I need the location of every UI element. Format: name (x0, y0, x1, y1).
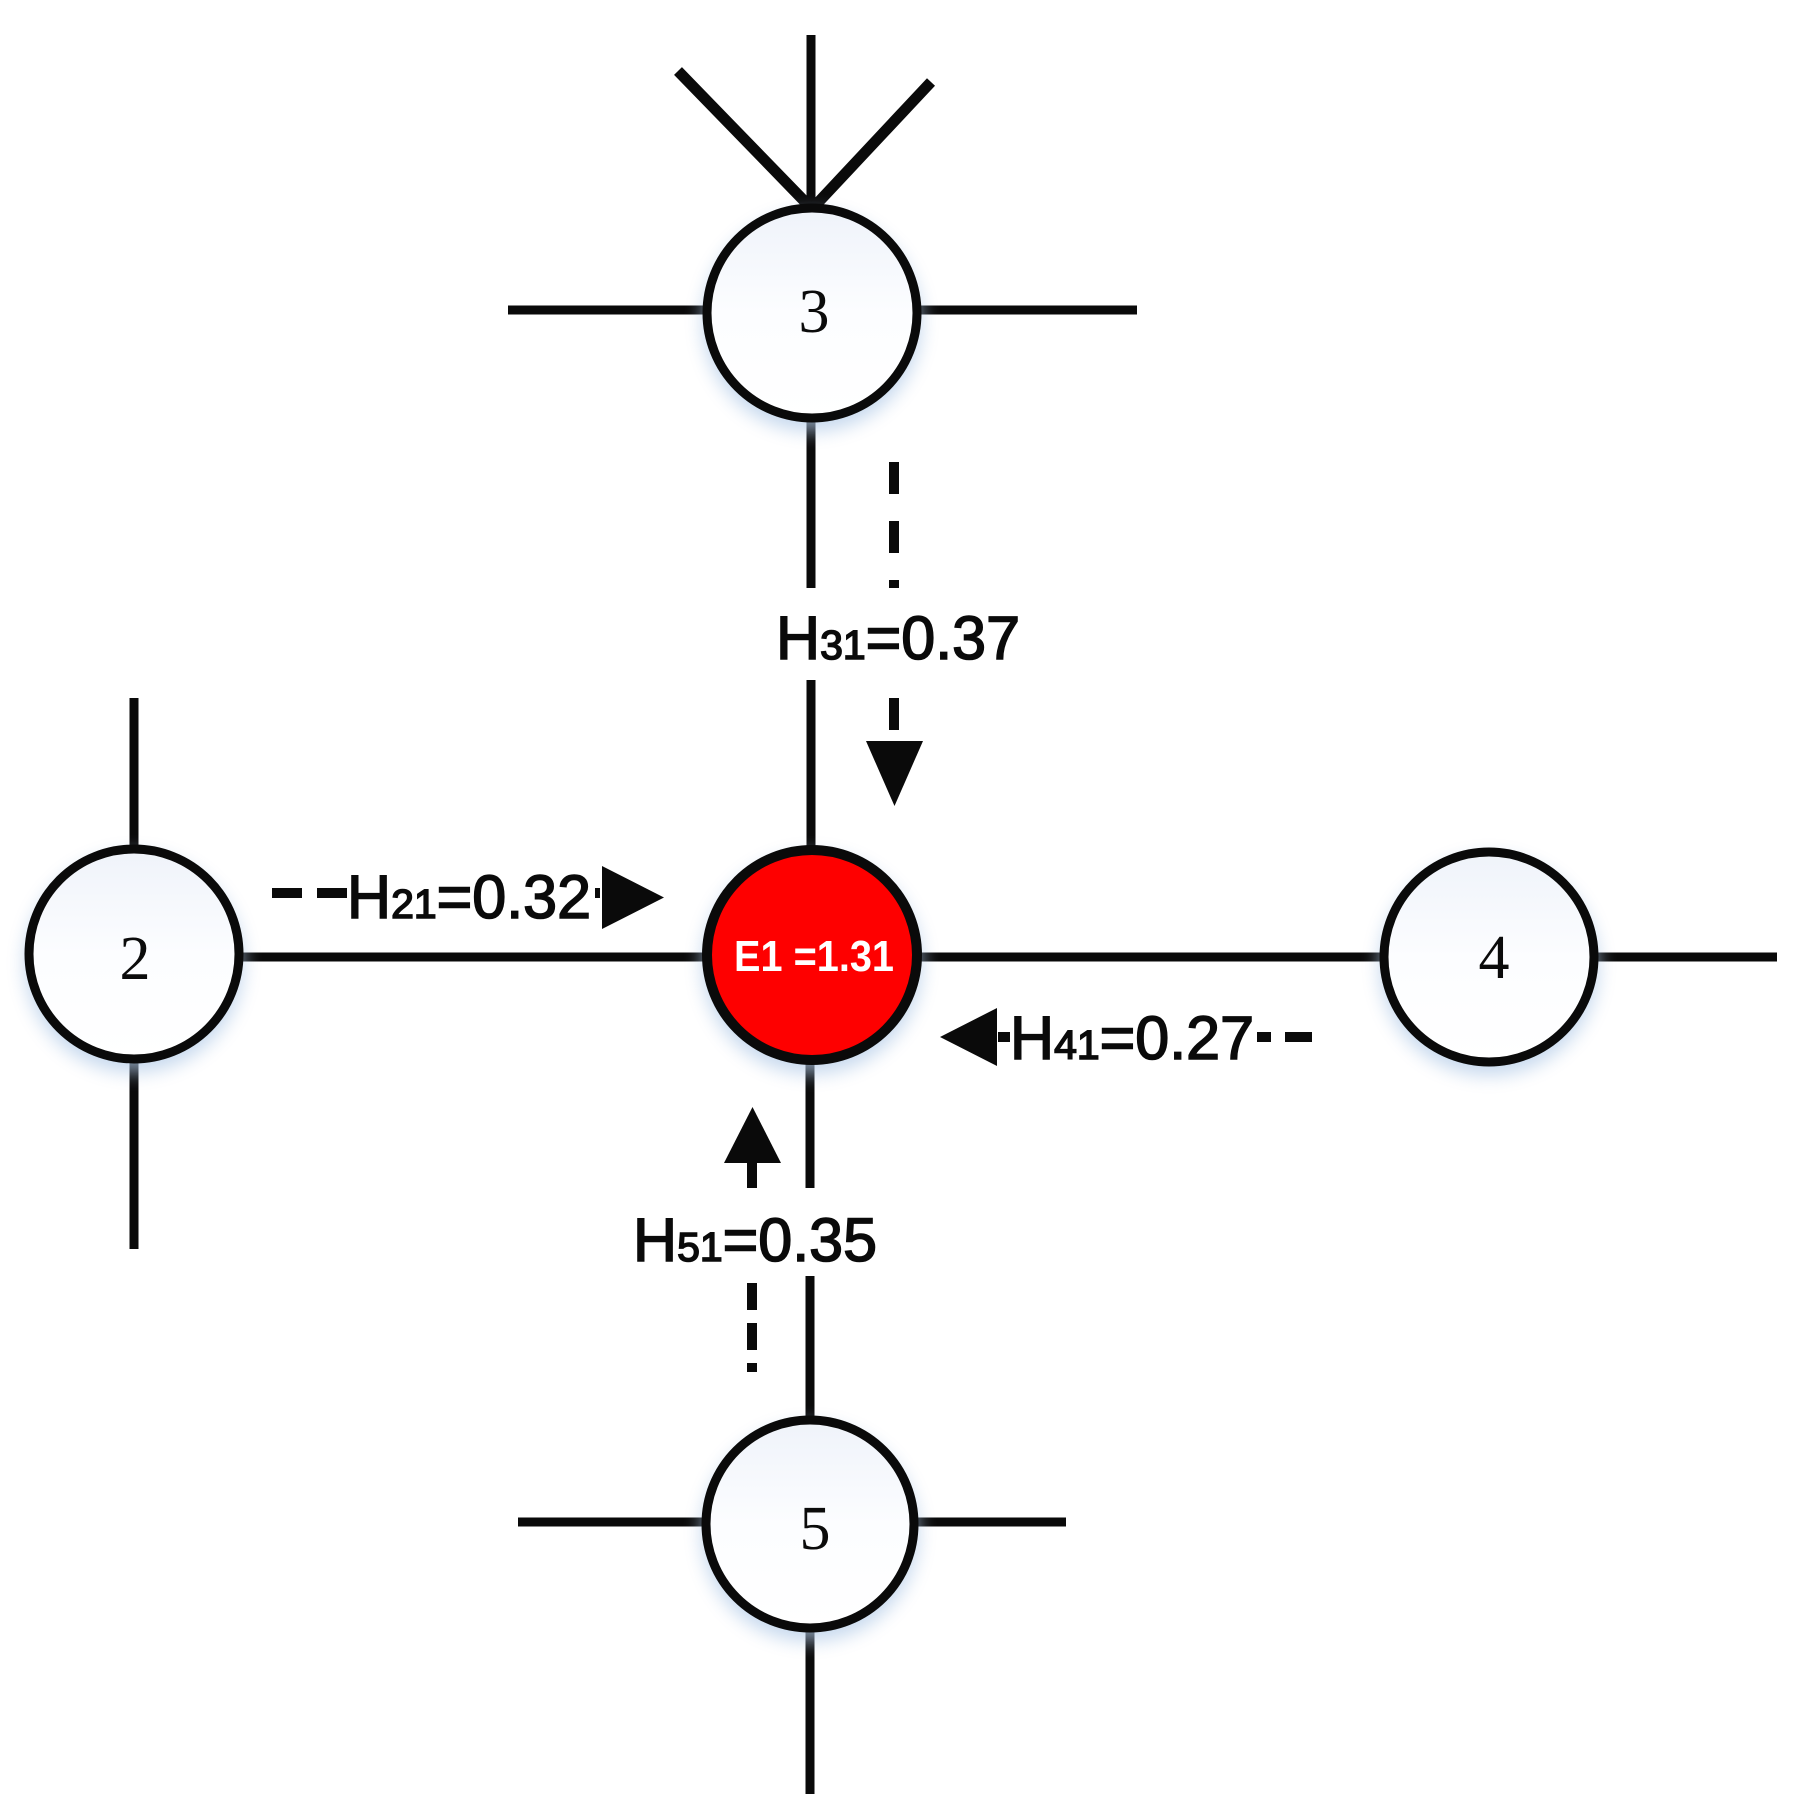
label H41=0.27 background (1010, 996, 1257, 1081)
wire: feeder into bus 3 right diagonal (812, 82, 931, 209)
arrowhead H51 (up) (724, 1107, 781, 1163)
svg-text:4: 4 (1479, 924, 1510, 992)
wire: line 5-1 (bus 5 to bus 1) (806, 1063, 815, 1418)
wire: line 1-4 (bus 1 to bus 4) (920, 953, 1382, 962)
svg-text:H21=0.32: H21=0.32 (347, 863, 591, 931)
node/bus circles (29, 208, 1594, 1628)
svg-text:H51=0.35: H51=0.35 (633, 1206, 877, 1274)
dashed arrow H51 line (747, 1163, 757, 1372)
dashed arrow H41 line (998, 1032, 1326, 1042)
wire: bus 2 bottom branch (130, 1061, 139, 1249)
svg-text:H41=0.27: H41=0.27 (1010, 1004, 1254, 1072)
dashed arrow H31 line (889, 462, 899, 741)
arrowhead H31 (down) (866, 741, 923, 806)
wire: feeder into bus 3 left diagonal (678, 71, 812, 209)
dashed arrow H21 line (272, 888, 600, 898)
wire: line 3-1 (bus 3 to bus 1) (807, 419, 816, 847)
wire: line 2-1 (bus 2 to bus 1) (242, 953, 704, 962)
svg-text:H31=0.37: H31=0.37 (776, 604, 1020, 672)
label H21=0.32 background (348, 852, 595, 940)
node bus 2 (29, 849, 239, 1059)
wire: bus 5 bottom branch (806, 1630, 815, 1794)
svg-text:E1 =1.31: E1 =1.31 (734, 932, 894, 981)
svg-text:3: 3 (799, 278, 830, 346)
node bus 4 (1384, 852, 1594, 1062)
wire: bus 5 left branch (518, 1518, 704, 1527)
wire: bus 3 left branch (508, 306, 706, 315)
node bus 1 E1 (red) (707, 850, 917, 1060)
arrowhead H21 (right) (602, 866, 664, 929)
label H51=0.35 background (632, 1188, 879, 1276)
svg-text:5: 5 (800, 1495, 831, 1563)
wire: bus 5 right branch (917, 1518, 1066, 1527)
dashed measurement arrows (272, 462, 1326, 1372)
wire: feeder into bus 3 vertical from top (807, 35, 816, 211)
svg-text:2: 2 (120, 925, 151, 993)
node bus 3 (707, 208, 917, 418)
wire: bus 2 top branch (130, 698, 139, 848)
wire: bus 4 right branch (1595, 953, 1777, 962)
arrowhead H41 (left) (940, 1008, 997, 1066)
node bus 5 (706, 1420, 914, 1628)
wire: bus 3 right branch (918, 306, 1137, 315)
label H31=0.37 background (775, 588, 1020, 680)
